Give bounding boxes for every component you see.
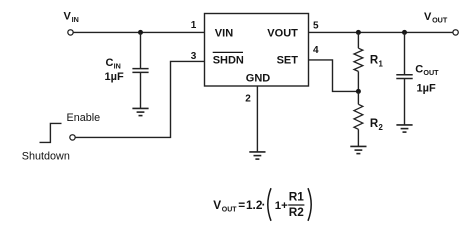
junction R1 top node (356, 30, 361, 35)
svg-text:2: 2 (245, 94, 251, 105)
ground for R2 (350, 146, 366, 153)
junction CIN node (138, 30, 143, 35)
wire CIN bottom plate to ground (140, 73, 142, 108)
svg-text:·: · (262, 198, 266, 212)
svg-text:3: 3 (191, 51, 197, 62)
wire node to R2 (357, 91, 359, 104)
wire R1 to SET node (357, 71, 359, 91)
svg-text:IN: IN (114, 61, 121, 70)
svg-text:IN: IN (72, 15, 79, 24)
resistor R2 (354, 104, 363, 129)
label R1 (370, 55, 384, 69)
wire pin 4 SET to divider node (309, 60, 359, 92)
wire pin 2 to ground (256, 86, 258, 152)
junction SET divider node (356, 89, 361, 94)
svg-text:OUT: OUT (222, 206, 238, 213)
svg-text:1: 1 (191, 20, 197, 31)
label R2 (370, 118, 384, 132)
capacitor COUT (396, 75, 412, 79)
svg-text:OUT: OUT (432, 16, 448, 25)
svg-text:2: 2 (379, 123, 384, 132)
svg-text:1µF: 1µF (417, 83, 436, 95)
junction COUT node (402, 30, 407, 35)
wire COUT to ground (404, 79, 406, 125)
regulator U1 body (205, 14, 309, 87)
svg-text:1+: 1+ (275, 200, 288, 212)
svg-text:=: = (238, 198, 245, 212)
ground for U1 GND pin (249, 152, 265, 159)
svg-text:V: V (213, 198, 221, 212)
wire enable terminal to pin 3 (75, 61, 204, 137)
wire COUT node to COUT (404, 32, 406, 74)
capacitor CIN (132, 69, 148, 73)
svg-text:1: 1 (379, 59, 384, 68)
wire VIN terminal to pin 1 (73, 31, 204, 33)
svg-text:SHDN: SHDN (213, 55, 244, 67)
enable step waveform symbol (40, 123, 62, 142)
resistor R1 (354, 48, 363, 71)
svg-text:C: C (106, 57, 114, 69)
svg-text:5: 5 (313, 20, 319, 31)
svg-text:OUT: OUT (423, 68, 439, 77)
svg-text:4: 4 (313, 45, 319, 56)
wire junction to CIN top plate (140, 32, 142, 68)
label CIN (106, 57, 121, 70)
enable input terminal (70, 135, 75, 140)
formula VOUT = 1.2 (1 + R1/R2) (213, 188, 311, 221)
svg-text:C: C (415, 64, 423, 76)
U1 pin name SHDN (active low, overline) (213, 52, 244, 66)
node VIN label (64, 11, 79, 24)
svg-text:1µF: 1µF (105, 71, 124, 83)
svg-text:SET: SET (277, 55, 299, 67)
label COUT (415, 64, 439, 78)
output terminal VOUT (453, 30, 458, 35)
wire pin 5 VOUT rail (309, 31, 453, 33)
svg-text:VIN: VIN (215, 28, 233, 40)
ground for CIN (132, 108, 148, 115)
svg-text:V: V (424, 11, 432, 23)
wire VOUT rail to R1 (357, 32, 359, 48)
svg-text:R1: R1 (289, 189, 305, 203)
svg-text:Enable: Enable (67, 112, 101, 124)
svg-text:R2: R2 (289, 205, 305, 219)
input terminal VIN (68, 30, 73, 35)
svg-text:VOUT: VOUT (267, 28, 298, 40)
svg-text:V: V (64, 11, 72, 23)
svg-text:Shutdown: Shutdown (22, 151, 70, 163)
node VOUT label (424, 11, 448, 25)
svg-text:GND: GND (246, 73, 270, 85)
wire R2 to ground (357, 129, 359, 146)
svg-text:1.2: 1.2 (246, 198, 263, 212)
ground for COUT (396, 125, 412, 132)
